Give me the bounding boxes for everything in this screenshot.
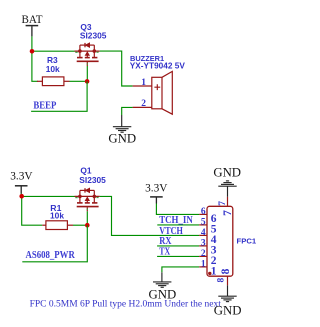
power port 3.3V (right) <box>145 181 168 203</box>
wire Q3 gate to junction <box>86 66 88 81</box>
channel stubs <box>79 196 81 202</box>
pin 8 lead <box>227 276 229 285</box>
body <box>207 206 233 276</box>
resistor R3 <box>37 77 70 86</box>
arrow on middle stub <box>85 52 89 55</box>
pin 6 lead <box>199 213 207 215</box>
gate lead <box>86 62 88 66</box>
pin end tick source <box>75 197 77 198</box>
ground symbol below pin 1 <box>153 272 171 287</box>
pin end tick gate <box>87 63 88 64</box>
resistor R1 <box>42 221 73 230</box>
svg-text:7: 7 <box>222 210 234 216</box>
svg-text:2: 2 <box>201 249 206 259</box>
gate bar <box>77 60 99 62</box>
wire R3 to gate junction <box>70 80 88 82</box>
svg-text:2: 2 <box>141 99 146 109</box>
gate bar <box>77 206 99 208</box>
svg-text:AS608_PWR: AS608_PWR <box>26 251 76 262</box>
svg-text:7: 7 <box>218 201 228 206</box>
node junction 3.3V rail <box>19 194 24 199</box>
body rectangle <box>152 77 162 109</box>
horn <box>162 71 172 114</box>
body diode triangle <box>85 188 89 192</box>
body diode bar <box>84 43 86 47</box>
svg-text:3.3V: 3.3V <box>10 169 33 182</box>
wire to junction <box>20 194 22 197</box>
junction dots on rail <box>78 49 82 53</box>
svg-text:FPC1: FPC1 <box>237 237 257 246</box>
pin 7 lead <box>227 197 229 207</box>
pin 4 lead <box>199 234 207 236</box>
power port BAT <box>22 14 43 37</box>
wire RX stub to pin 3 <box>157 245 199 247</box>
wire R1 to gate junction <box>73 224 87 226</box>
svg-text:GND: GND <box>213 166 241 180</box>
body diode bar <box>84 188 86 192</box>
pin 2 lead <box>199 255 207 257</box>
wire buzzer pin 2 to ground <box>122 107 133 115</box>
svg-text:3: 3 <box>201 238 206 248</box>
svg-text:1: 1 <box>211 265 217 277</box>
wire BAT stem to junction <box>31 36 33 51</box>
svg-text:GND: GND <box>108 132 136 146</box>
ground symbol below buzzer <box>113 115 131 132</box>
svg-text:YX-YT9042 5V: YX-YT9042 5V <box>130 61 186 70</box>
wire Q1 gate to junction <box>86 211 88 225</box>
power port GND top (pin 7) <box>213 166 241 197</box>
body diode top line <box>80 189 94 191</box>
source/drain rail <box>75 195 100 197</box>
svg-text:1: 1 <box>201 259 206 269</box>
pin end tick gate <box>87 209 88 210</box>
wire TX stub to pin 2 <box>157 255 199 257</box>
pin end tick drain <box>96 197 98 198</box>
pin end tick source <box>75 52 77 53</box>
svg-text:8: 8 <box>220 268 232 274</box>
wire BAT rail down to R3 <box>32 51 38 81</box>
wire Q1 drain to FPC pin 4 (VTCH) <box>100 196 200 235</box>
svg-text:GND: GND <box>214 303 242 317</box>
svg-text:10k: 10k <box>50 210 64 220</box>
plus polarity mark <box>154 84 160 90</box>
svg-text:SI2305: SI2305 <box>80 31 107 41</box>
wire junction to Q1 source <box>22 195 75 197</box>
svg-text:SI2305: SI2305 <box>79 175 106 185</box>
svg-text:3.3V: 3.3V <box>145 181 168 194</box>
wire junction to Q3 source <box>32 50 75 52</box>
svg-text:4: 4 <box>201 228 206 238</box>
svg-text:8: 8 <box>217 278 227 283</box>
wire FPC pin 1 to ground <box>162 267 199 272</box>
pin 1 dot <box>208 272 211 275</box>
pin 3 lead <box>199 245 207 247</box>
channel segments <box>77 202 83 204</box>
svg-text:BAT: BAT <box>22 14 43 26</box>
body diode top line <box>80 44 94 46</box>
node junction gate/R1 <box>85 223 90 228</box>
svg-text:5: 5 <box>201 217 206 227</box>
wire 3.3V to FPC pin 6 <box>156 204 199 215</box>
svg-text:TX: TX <box>159 246 170 257</box>
svg-text:BEEP: BEEP <box>33 101 56 112</box>
transistor Q3 SI2305 (P-MOSFET) <box>75 43 100 66</box>
connector FPC1 <box>199 197 233 285</box>
arrow on middle stub <box>85 197 89 200</box>
power port 3.3V (left) <box>10 169 33 193</box>
svg-text:6: 6 <box>201 207 206 217</box>
svg-text:VTCH: VTCH <box>159 225 183 236</box>
gate lead <box>86 207 88 211</box>
wire AS608_PWR net <box>22 225 87 262</box>
source/drain rail <box>75 50 100 52</box>
node junction BAT rail <box>30 49 35 54</box>
pin 2 lead <box>133 106 152 108</box>
pin 1 lead <box>199 266 207 268</box>
channel stubs <box>79 51 81 57</box>
pin 1 lead <box>133 85 152 87</box>
channel segments <box>77 57 83 59</box>
wire 3.3V rail down to R1 <box>22 196 43 225</box>
buzzer BUZZER1 YX-YT9042 5V <box>133 71 173 114</box>
wire Q3 drain to buzzer pin 1 <box>100 51 133 86</box>
pin end tick drain <box>96 52 98 53</box>
pin 5 lead <box>199 224 207 226</box>
node junction gate/R3 <box>85 79 90 84</box>
body diode triangle <box>85 43 89 47</box>
svg-text:FPC 0.5MM 6P Pull type H2.0mm: FPC 0.5MM 6P Pull type H2.0mm Under the … <box>30 300 222 310</box>
svg-text:10k: 10k <box>46 64 60 74</box>
wire TCH_IN stub to pin 5 <box>157 224 199 226</box>
junction dots on rail <box>78 195 82 199</box>
transistor Q1 SI2305 (P-MOSFET) <box>75 188 100 211</box>
power port GND bottom (pin 8) <box>214 285 242 317</box>
svg-text:1: 1 <box>141 78 146 88</box>
wire BEEP net <box>31 81 87 111</box>
